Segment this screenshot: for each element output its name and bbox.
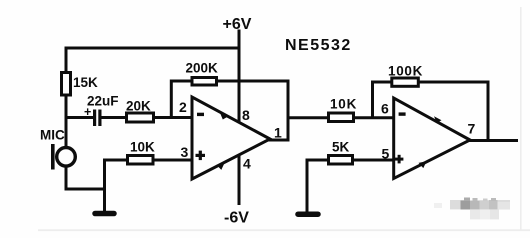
svg-text:2: 2 bbox=[179, 99, 187, 115]
label MIC bbox=[40, 128, 65, 143]
wire: input node down to microphone bbox=[65, 116, 68, 147]
wire: feedback2 right vertical down to output bbox=[487, 82, 490, 142]
svg-text:MIC: MIC bbox=[40, 128, 65, 143]
ground G2 bar bbox=[298, 211, 318, 217]
resistor R7 5K body bbox=[329, 156, 353, 165]
wire: 200K left lead bbox=[170, 80, 191, 83]
wire: op-amp U1A output stub pin 1 bbox=[268, 139, 290, 142]
op-amp U1A plus mark pin3 bbox=[196, 151, 206, 161]
svg-text:NE5532: NE5532 bbox=[285, 37, 352, 54]
arrowhead on U1B lower edge bbox=[419, 161, 427, 168]
svg-text:10K: 10K bbox=[330, 97, 357, 112]
wire: ground node to 10K left lead bbox=[105, 159, 128, 162]
wire: 15K top lead bbox=[65, 47, 68, 73]
wire: ground2 stem bbox=[306, 159, 309, 213]
svg-text:200K: 200K bbox=[186, 61, 219, 76]
wire: 20K to op-amp pin 2 bbox=[154, 116, 193, 119]
resistor R6 100K body bbox=[392, 78, 419, 86]
wire: op-amp U1B output pin 7 bbox=[469, 139, 518, 142]
resistor R3 200K body bbox=[192, 78, 217, 86]
resistor R5 10K body bbox=[329, 113, 354, 122]
svg-text:6: 6 bbox=[381, 101, 389, 117]
svg-text:1: 1 bbox=[274, 125, 282, 141]
op-amp U1B minus mark pin6 bbox=[399, 112, 406, 115]
wire: feedback2 left vertical up to 100K bbox=[371, 81, 374, 118]
op-amp U1A minus mark pin2 bbox=[197, 113, 204, 116]
wire: 100K left lead bbox=[371, 81, 391, 84]
pin label 5 bbox=[382, 146, 390, 162]
svg-text:8: 8 bbox=[242, 107, 250, 123]
microphone MIC symbol: circle + electret bar bbox=[51, 144, 75, 170]
resistor R1 15K body bbox=[62, 73, 71, 96]
pin label 6 bbox=[381, 101, 389, 117]
svg-text:7: 7 bbox=[468, 121, 476, 137]
op-amp U1B triangle bbox=[394, 98, 470, 179]
label 20K bbox=[126, 99, 151, 114]
wire: ground2 to 5K left lead bbox=[306, 159, 329, 162]
svg-text:10K: 10K bbox=[130, 140, 155, 155]
label 200K bbox=[186, 61, 219, 76]
svg-text:20K: 20K bbox=[126, 99, 151, 114]
op-amp U1A triangle bbox=[192, 97, 270, 179]
pin label 2 bbox=[179, 99, 187, 115]
label NE5532 bbox=[285, 37, 352, 54]
label 22uF bbox=[87, 94, 119, 109]
wire: 5K to op-amp pin 5 bbox=[354, 159, 394, 162]
label 100K bbox=[388, 64, 423, 79]
faint page border lines (decorative) bbox=[520, 7, 522, 230]
label +6V bbox=[223, 16, 252, 33]
svg-text:5: 5 bbox=[382, 146, 390, 162]
label 5K bbox=[332, 140, 350, 155]
pin label 7 bbox=[468, 121, 476, 137]
wire: node to capacitor left plate bbox=[65, 116, 94, 119]
op-amp U1B plus mark pin5 bbox=[395, 155, 404, 164]
svg-text:22uF: 22uF bbox=[87, 94, 119, 109]
pin label 1 bbox=[274, 125, 282, 141]
svg-text:-6V: -6V bbox=[224, 210, 249, 227]
wire: pin 4 supply line to -6V bbox=[238, 155, 241, 206]
label + polarity of C1 bbox=[84, 105, 91, 119]
svg-text:4: 4 bbox=[243, 156, 251, 172]
svg-text:+6V: +6V bbox=[223, 16, 252, 33]
svg-text:+: + bbox=[84, 105, 91, 119]
label -6V bbox=[224, 210, 249, 227]
wire: 100K right lead to feedback corner bbox=[419, 81, 490, 84]
label 10K (stage 2) bbox=[330, 97, 357, 112]
svg-text:3: 3 bbox=[181, 144, 189, 160]
label 15K bbox=[73, 75, 98, 90]
pin label 3 bbox=[181, 144, 189, 160]
pin label 4 bbox=[243, 156, 251, 172]
wire: feedback left vertical from 200K down to pin 2 node bbox=[170, 80, 173, 118]
watermark blur blocks bbox=[434, 198, 510, 220]
wire: feedback right vertical down to output node bbox=[287, 81, 290, 142]
wire: microphone bottom lead down bbox=[65, 166, 68, 191]
resistor R2 20K body bbox=[127, 113, 154, 122]
label 10K (stage 1) bbox=[130, 140, 155, 155]
wire: capacitor to 20K bbox=[101, 116, 126, 119]
wire: 200K right lead to feedback corner bbox=[217, 80, 290, 83]
resistor R4 10K body bbox=[128, 156, 154, 165]
capacitor C1 22uF plates bbox=[93, 110, 102, 127]
wire: pin 8 supply line from +6V bbox=[238, 30, 241, 123]
wire: 10K to op-amp pin 3 bbox=[154, 159, 193, 162]
wire: top +6V supply rail horizontal bbox=[65, 47, 241, 50]
wire: 10K to op-amp pin 6 bbox=[354, 116, 394, 119]
svg-text:15K: 15K bbox=[73, 75, 98, 90]
arrowhead on U1A lower edge bbox=[217, 163, 225, 170]
svg-text:5K: 5K bbox=[332, 140, 350, 155]
wire: mic return horizontal to ground vertical bbox=[65, 188, 107, 191]
arrowhead on U1B upper edge bbox=[434, 116, 442, 123]
pin label 8 bbox=[242, 107, 250, 123]
svg-text:100K: 100K bbox=[388, 64, 423, 79]
arrowhead on U1A upper edge bbox=[220, 113, 228, 120]
wire: ground vertical from 10K node down to ground symbol bbox=[103, 159, 106, 213]
wire: branch from output node to second stage 10K bbox=[288, 116, 328, 119]
wire: 15K bottom lead to input node bbox=[65, 95, 68, 119]
ground G1 bar bbox=[95, 211, 114, 217]
